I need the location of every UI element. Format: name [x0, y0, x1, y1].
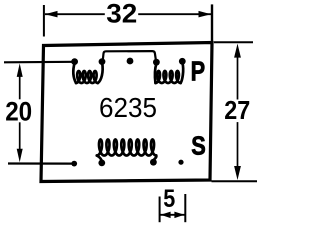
- dimension 20: dimension line lower segment: [19, 122, 21, 154]
- dimension 20: down arrowhead: [17, 149, 23, 163]
- dimension 32: left arrowhead: [45, 11, 58, 18]
- svg-text:20: 20: [5, 96, 32, 126]
- primary winding left half (coil): [73, 63, 102, 83]
- component outline (bobbin body): [41, 43, 212, 182]
- secondary coil left terminal dot: [98, 160, 105, 167]
- dimension 32: right arrowhead: [199, 11, 212, 18]
- pin dot S: [178, 160, 183, 165]
- dimension 27: top extension line: [214, 41, 253, 43]
- dimension 5: right arrowhead: [174, 212, 184, 219]
- dimension 20: top extension line / wire to primary pin: [4, 61, 75, 64]
- dimension 27: up arrowhead: [234, 44, 241, 58]
- dimension 27: dimension line upper segment: [237, 52, 239, 100]
- dimension 5: left arrowhead: [161, 212, 171, 219]
- secondary coil right terminal dot: [150, 159, 157, 166]
- dimension 20: dimension line upper segment: [19, 71, 21, 99]
- dimension 32: right extension line: [211, 4, 213, 42]
- dimension 20: bottom extension line / wire to pin: [8, 162, 74, 164]
- pin dot at end of bottom extension wire: [71, 161, 77, 167]
- primary coil left terminal dot: [71, 58, 78, 65]
- dimension 27: dimension line lower segment: [237, 122, 239, 172]
- svg-text:32: 32: [106, 0, 137, 29]
- primary center tap dot: [127, 58, 134, 65]
- dimension 5: dimension line: [160, 214, 185, 216]
- wire linking primary halves: [103, 51, 156, 60]
- dimension 20: up arrowhead: [17, 63, 23, 77]
- dimension 32: dimension line right segment: [138, 13, 211, 15]
- secondary winding (coil): [97, 140, 157, 162]
- svg-text:6235: 6235: [99, 92, 157, 123]
- primary winding right half (coil): [155, 63, 183, 83]
- dimension 27: down arrowhead: [234, 166, 241, 180]
- svg-text:27: 27: [224, 97, 250, 125]
- svg-text:S: S: [191, 130, 206, 160]
- primary coil middle-left terminal dot: [99, 58, 106, 65]
- dimension 5: right extension line: [184, 194, 186, 222]
- svg-text:P: P: [191, 55, 206, 86]
- svg-text:5: 5: [163, 185, 175, 213]
- primary coil middle-right terminal dot: [153, 59, 160, 66]
- dimension 32: left extension line: [43, 5, 45, 37]
- dimension 32: dimension line left segment: [45, 13, 105, 15]
- dimension 5: left extension line: [159, 197, 161, 223]
- primary coil right terminal dot: [179, 58, 186, 65]
- dimension 27: bottom extension line: [212, 180, 258, 182]
